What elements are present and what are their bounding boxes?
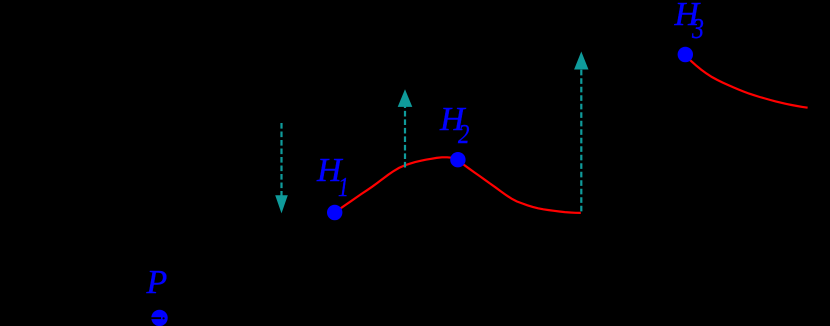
blue dot P — [151, 310, 167, 326]
teal dashed down arrow — [275, 123, 288, 213]
label H1 — [317, 154, 342, 188]
blue dot H2 — [450, 152, 465, 167]
label H3 — [675, 0, 700, 32]
black line over P dot — [145, 317, 161, 319]
blue dot H3 — [678, 47, 693, 62]
red curve from H1 up to H2 — [335, 157, 458, 212]
teal dashed up arrow (right) — [574, 52, 588, 212]
red curve from H3 down to right edge — [685, 55, 807, 108]
label H2 — [440, 103, 465, 137]
teal dashed up arrow (middle) — [398, 89, 413, 167]
red curve from H2 down to base of right arrow — [458, 161, 581, 213]
label P — [147, 266, 168, 300]
blue dot H1 — [327, 205, 342, 220]
